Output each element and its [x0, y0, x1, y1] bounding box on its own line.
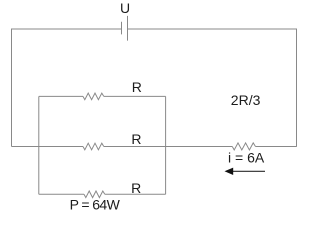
- svg-text:P = 64W: P = 64W: [70, 197, 121, 213]
- svg-text:U: U: [120, 0, 130, 16]
- svg-text:R: R: [131, 131, 141, 147]
- svg-text:i = 6A: i = 6A: [228, 150, 265, 166]
- svg-text:R: R: [132, 79, 142, 95]
- svg-text:R: R: [131, 180, 141, 196]
- svg-text:2R/3: 2R/3: [231, 92, 261, 108]
